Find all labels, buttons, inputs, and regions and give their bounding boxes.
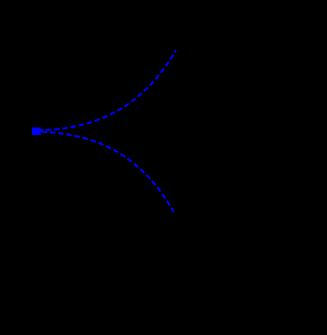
wire: lower diverging trajectory (dashed)	[38, 132, 174, 212]
wire: upper diverging trajectory (dashed)	[38, 50, 177, 130]
node A: initial-condition square marker	[32, 128, 41, 135]
